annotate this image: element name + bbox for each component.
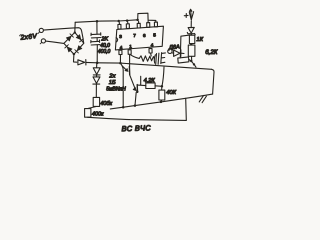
wire rail bump [138,13,156,20]
node main junction [96,62,99,65]
wire R6 to node A [189,60,191,61]
pin bottom 3 [149,49,152,57]
wire jog to R2 [88,107,96,109]
svg-text:Д6А: Д6А [168,44,181,51]
node pin1-longwire [119,62,122,65]
long wire to the right [97,63,211,70]
svg-text:400,0: 400,0 [98,49,111,55]
wire to R1 [95,84,97,97]
wire vertical to bottom bus [185,98,188,120]
node midbus c [160,101,163,104]
terminal T1 [39,28,43,32]
bridge diode SE [77,46,82,51]
IC U1 body [115,26,163,50]
node B [193,63,195,65]
resistor R2 box [85,109,91,118]
transistor Q2 arrow [133,87,136,91]
svg-text:5мВNпН: 5мВNпН [106,86,126,92]
pin top 4 [147,21,150,28]
transistor Q1 arrow [122,66,127,71]
svg-text:1К: 1К [196,37,203,43]
chain diode D2 [96,63,98,67]
wire node up to long wire [162,67,164,86]
wire pin to zigzag [131,55,140,59]
pin top 3 [137,21,140,28]
node midbus b [134,104,137,107]
transistor Q1 bar [128,67,130,75]
node rail-cap [96,20,99,23]
wire node down [161,87,163,91]
svg-text:2K: 2K [100,37,108,43]
node midbus a [122,106,125,109]
circle component [168,49,172,53]
transistor Q2 bar [136,85,138,93]
resistor R7 box 6.2K [188,45,195,56]
resistor R6 box horizontal [178,57,189,63]
resistor R8 box 1K [189,35,194,43]
diode D4 [172,52,173,54]
wire right down [212,69,214,94]
+V symbol [184,14,188,18]
svg-text:6,2К: 6,2К [205,49,218,56]
node R3-R4 [161,85,164,88]
svg-text:3: 3 [119,34,122,39]
bridge diode SW [67,47,72,52]
svg-text:1: 1 [129,44,132,49]
wire zener to R8 [191,33,193,36]
hatch marks on bus [199,95,206,102]
mid bus sloping [110,94,212,109]
capacitor column wire [96,21,98,62]
bridge diode NE [76,35,81,40]
svg-text:4: 4 [120,45,123,50]
wire R3 to node [155,85,162,88]
svg-text:40К: 40К [166,90,176,96]
resistor R4 box 40K [159,90,165,100]
node rail pin3 [136,19,139,22]
node J [190,43,192,45]
pin top 1 [118,22,121,29]
chain diode D3 [93,75,100,84]
wire vertical x123 [121,63,124,107]
diode D1 horizontal [78,60,85,65]
resistor R1 box [93,97,99,106]
bridge rectifier diamond [64,32,84,54]
node A [190,60,192,62]
wire node A to node B [192,61,194,64]
earphone symbol [154,55,155,63]
node bridge top [74,31,76,33]
wire bridge top to rail [74,22,76,32]
node rail pin1 [117,20,120,23]
svg-text:7: 7 [133,33,136,38]
wire J to D4 area [180,35,191,58]
wire Q1 to Q2 [130,75,136,89]
node bridge bottom [73,53,75,55]
wire T2 to bridge left vertex [46,41,64,43]
node Q2 [136,91,138,93]
svg-text:40бк: 40бк [100,101,112,107]
capacitor C2 [91,40,100,43]
bridge diode NW [66,36,71,41]
wire R7 bottom [191,56,193,61]
svg-text:2x: 2x [108,73,116,79]
svg-text:400к: 400к [92,111,104,117]
svg-text:1Б: 1Б [109,80,116,86]
wire top rail [75,20,137,23]
wire zener top [190,21,192,28]
resistor R3 box 4.2K [146,83,155,89]
svg-text:6: 6 [143,33,146,38]
capacitor C1 [91,33,101,36]
bottom bus [88,117,187,120]
node rail pin2 [126,19,129,22]
wire T1 to bridge right vertex [44,28,84,43]
svg-text:4: 4 [151,42,154,47]
wire node B to long wire [194,65,196,68]
pin top 2 [126,22,129,29]
IC left notch [116,38,118,43]
pin bottom 1 [119,50,122,63]
zener diode VD [188,27,194,33]
pin top 5 [154,21,157,27]
wire R4 to midbus [160,100,163,102]
wire Q2 down to midbus [135,92,136,105]
resistor R5 zigzag [139,56,154,62]
svg-text:5: 5 [153,33,156,38]
terminal T2 [41,39,45,43]
collector stub [138,76,146,85]
svg-text:2x6V: 2x6V [19,33,38,42]
wire bridge bottom down [74,54,77,62]
svg-text:BC BЧC: BC BЧC [121,123,151,133]
pin bottom 2 [128,50,131,67]
